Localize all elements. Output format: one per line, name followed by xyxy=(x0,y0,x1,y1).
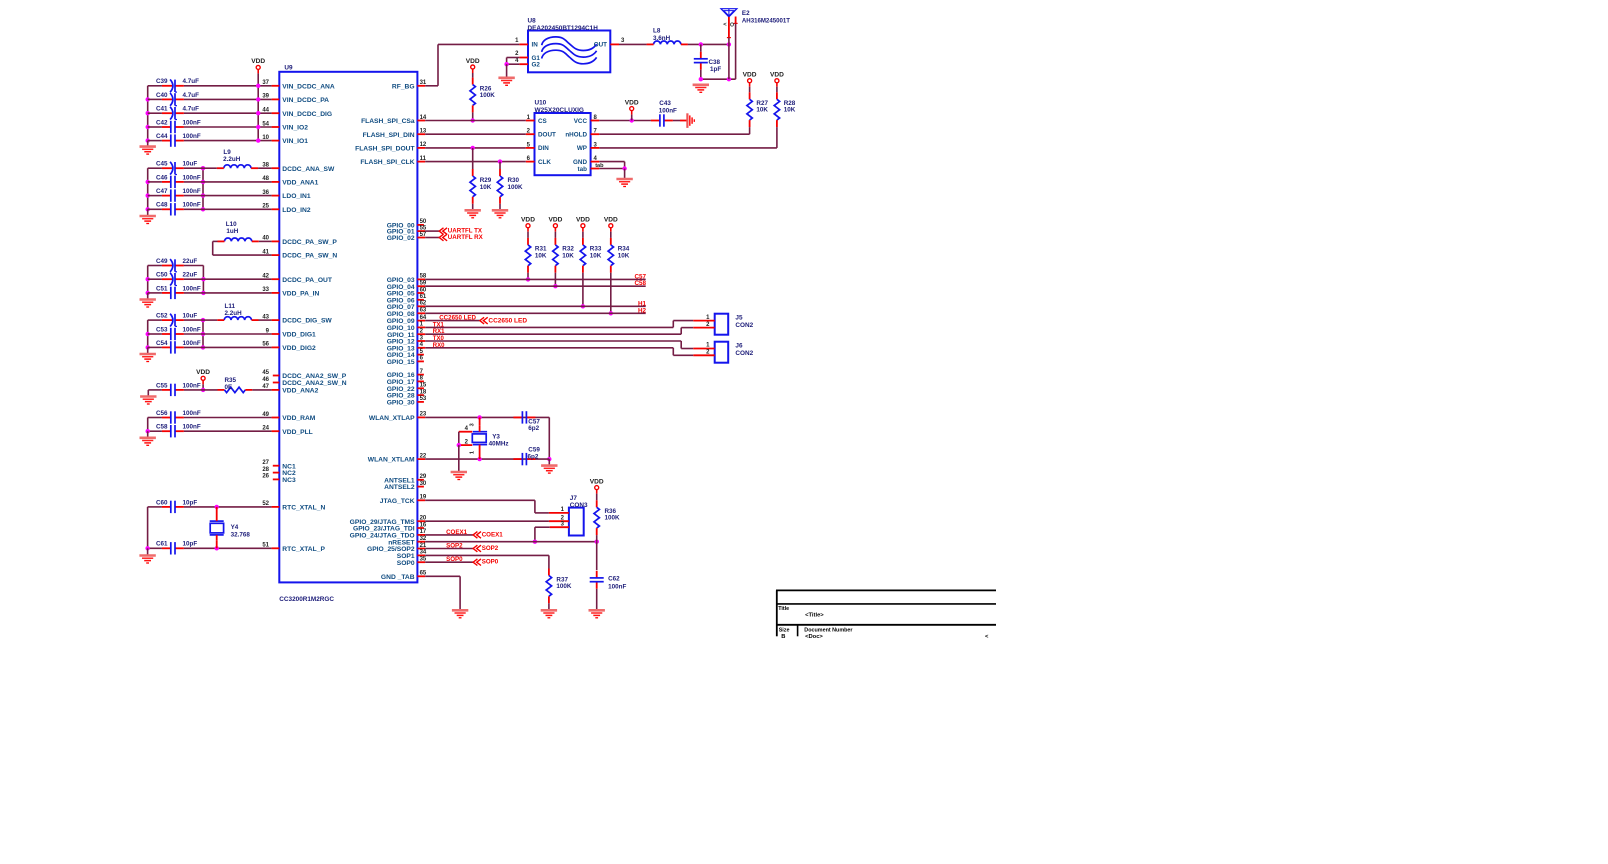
IC U9 CC3200R1M2RGC body xyxy=(279,72,417,583)
svg-text:100nF: 100nF xyxy=(183,174,201,181)
svg-text:CLK: CLK xyxy=(538,159,551,166)
VDD above R31 xyxy=(526,224,530,228)
svg-text:C55: C55 xyxy=(156,382,168,389)
wire RF_BG to U8 IN xyxy=(425,85,438,87)
U10 pin 8 VCC xyxy=(591,120,600,122)
svg-text:4.7uF: 4.7uF xyxy=(183,92,200,99)
resistor R27 10K xyxy=(749,87,751,93)
U9 pin 39 VIN_DCDC_PA xyxy=(272,98,280,100)
svg-text:VIN_DCDC_PA: VIN_DCDC_PA xyxy=(282,97,329,104)
wire L10 left to pin 41 xyxy=(213,240,218,242)
J5 pin 2 xyxy=(693,327,714,329)
U9 pin 17 GPIO_24/JTAG_TDO xyxy=(417,534,425,536)
U9 pin 10 VIN_IO1 xyxy=(272,140,280,142)
svg-text:WP: WP xyxy=(577,145,587,152)
wire nRESET node to C62 xyxy=(596,542,598,570)
wire C56/C58 ground bus xyxy=(147,418,149,432)
svg-text:C56: C56 xyxy=(156,410,168,417)
svg-text:VDD: VDD xyxy=(625,99,639,106)
capacitor C45 10uF xyxy=(175,167,184,169)
wire GPIO_07 net H1 xyxy=(425,305,646,307)
svg-text:10K: 10K xyxy=(618,252,630,259)
capacitor C40 4.7uF xyxy=(175,98,184,100)
filter U8 DEA202450BT1294C1H xyxy=(528,31,610,73)
wire right bus C45-C48 xyxy=(202,168,204,209)
wire C42 left lead xyxy=(148,126,162,128)
svg-text:CC2650 LED: CC2650 LED xyxy=(439,315,476,322)
svg-text:J6: J6 xyxy=(735,343,743,350)
svg-text:VDD: VDD xyxy=(590,478,604,485)
svg-text:SOP2: SOP2 xyxy=(446,543,463,550)
svg-text:30: 30 xyxy=(420,481,427,487)
resistor R32 10K xyxy=(554,232,556,238)
wire FLASH_SPI_DOUT xyxy=(425,147,526,149)
capacitor C58 100nF xyxy=(175,430,184,432)
U9 pin 1 GPIO_10 xyxy=(417,326,425,328)
wire R27 to nHOLD xyxy=(749,127,751,134)
U9 pin 57 GPIO_02 xyxy=(417,237,425,239)
svg-text:L9: L9 xyxy=(223,149,231,156)
wire WLAN_XTLAM xyxy=(425,458,549,460)
ground below XTLAM corner xyxy=(548,459,550,465)
U8 pin 1 xyxy=(519,43,528,45)
svg-text:DCDC_PA_SW_P: DCDC_PA_SW_P xyxy=(282,239,337,246)
svg-text:100nF: 100nF xyxy=(659,107,677,114)
capacitor C61 10pF xyxy=(175,547,184,549)
U9 pin 34 SOP1 xyxy=(417,554,425,556)
U9 pin 40 DCDC_PA_SW_P xyxy=(272,240,280,242)
svg-text:VDD: VDD xyxy=(548,217,562,224)
svg-text:VDD: VDD xyxy=(196,369,210,376)
wire right bus C52-C54 xyxy=(202,320,204,347)
wire C58 to pin 24 xyxy=(184,430,272,432)
wire C44 left lead xyxy=(148,140,162,142)
U9 pin 19 JTAG_TCK xyxy=(417,499,425,501)
capacitor C44 100nF xyxy=(175,140,184,142)
svg-text:60: 60 xyxy=(420,287,427,293)
wire FLASH_SPI_CSa xyxy=(425,120,526,122)
svg-text:U8: U8 xyxy=(528,18,537,25)
svg-text:SOP0: SOP0 xyxy=(482,559,499,566)
capacitor C52 10uF xyxy=(175,319,184,321)
svg-text:100nF: 100nF xyxy=(183,410,201,417)
U9 pin 49 VDD_RAM xyxy=(272,417,280,419)
resistor R33 10K xyxy=(582,232,584,238)
wire antenna ground rail xyxy=(701,78,736,80)
svg-text:10uF: 10uF xyxy=(183,161,198,168)
U9 pin 6 GPIO_15 xyxy=(417,360,424,362)
ground below C51 bus xyxy=(147,293,149,299)
svg-text:61: 61 xyxy=(420,294,427,300)
svg-text:Y4: Y4 xyxy=(231,524,239,531)
U9 pin 35 SOP0 xyxy=(417,561,425,563)
svg-text:W25X20CLUXIG: W25X20CLUXIG xyxy=(535,107,585,114)
svg-text:22uF: 22uF xyxy=(183,272,198,279)
svg-text:C48: C48 xyxy=(156,202,168,209)
svg-text:100nF: 100nF xyxy=(183,285,201,292)
U9 pin 38 DCDC_ANA_SW xyxy=(272,167,280,169)
svg-text:tab: tab xyxy=(578,166,588,173)
svg-text:4.7uF: 4.7uF xyxy=(183,78,200,85)
svg-text:100nF: 100nF xyxy=(183,119,201,126)
svg-text:C53: C53 xyxy=(156,326,168,333)
svg-text:1uH: 1uH xyxy=(226,228,238,235)
wire R28 to WP xyxy=(776,127,778,148)
VDD above U10 VCC xyxy=(630,107,634,111)
Y3 pin 4 wire xyxy=(459,431,473,433)
svg-text:IN: IN xyxy=(532,42,539,49)
wire U10 VCC to VDD and C43 xyxy=(599,120,651,122)
svg-text:L8: L8 xyxy=(653,28,661,35)
svg-text:VDD_DIG2: VDD_DIG2 xyxy=(282,345,316,352)
svg-text:C52: C52 xyxy=(156,313,168,320)
crystal Y3 40MHz xyxy=(479,417,481,425)
wire to pin xyxy=(203,181,272,183)
svg-text:U10: U10 xyxy=(535,100,547,107)
VDD symbol top-left xyxy=(256,65,260,69)
svg-text:16: 16 xyxy=(420,522,427,528)
svg-text:COEX1: COEX1 xyxy=(482,531,504,538)
svg-text:RTC_XTAL_P: RTC_XTAL_P xyxy=(282,546,325,553)
U9 pin 54 VIN_IO2 xyxy=(272,126,280,128)
svg-text:40MHz: 40MHz xyxy=(489,440,509,447)
svg-text:VDD: VDD xyxy=(604,217,618,224)
antenna E2 AH316M245001T xyxy=(721,9,737,17)
svg-text:10K: 10K xyxy=(480,184,492,191)
svg-text:GPIO_02: GPIO_02 xyxy=(387,235,415,242)
svg-text:LDO_IN2: LDO_IN2 xyxy=(282,207,311,214)
svg-text:26: 26 xyxy=(262,474,269,480)
svg-text:C58: C58 xyxy=(156,424,168,431)
svg-text:DCDC_ANA2_SW_P: DCDC_ANA2_SW_P xyxy=(282,373,346,380)
capacitor C55 100nF xyxy=(175,389,184,391)
U9 pin 16 GPIO_23/JTAG_TDI xyxy=(417,527,424,529)
flash U10 W25X20CLUXIG xyxy=(535,113,591,175)
U9 pin 55 GPIO_01 xyxy=(417,230,425,232)
svg-text:53: 53 xyxy=(420,396,427,402)
resistor R30 100K xyxy=(499,162,501,169)
svg-text:WLAN_XTLAP: WLAN_XTLAP xyxy=(369,415,415,422)
ground below R29 xyxy=(465,209,481,212)
svg-text:FLASH_SPI_CSa: FLASH_SPI_CSa xyxy=(361,118,415,125)
svg-text:RF_BG: RF_BG xyxy=(392,83,415,90)
resistor R31 10K xyxy=(527,232,529,238)
svg-text:GPIO_08: GPIO_08 xyxy=(387,311,415,318)
wire C39 left lead xyxy=(148,85,162,87)
U10 pin 4 GND xyxy=(591,161,600,163)
wire R35 to pin 47 xyxy=(252,389,271,391)
svg-text:C46: C46 xyxy=(156,174,168,181)
svg-text:18: 18 xyxy=(420,389,427,395)
wire GPIO_08 net H2 xyxy=(425,312,646,314)
svg-text:VDD_DIG1: VDD_DIG1 xyxy=(282,332,316,339)
ground below U10 xyxy=(616,178,632,181)
VDD above R27 xyxy=(748,79,752,83)
svg-text:22uF: 22uF xyxy=(183,258,198,265)
U9 pin 48 VDD_ANA1 xyxy=(272,181,280,183)
U9 pin 58 GPIO_03 xyxy=(417,278,425,280)
wire R32 to GPIO row xyxy=(554,273,556,287)
svg-text:RX0: RX0 xyxy=(433,343,445,349)
svg-text:GND: GND xyxy=(573,159,587,166)
wire C61 to pin 51 xyxy=(184,547,272,549)
svg-text:100nF: 100nF xyxy=(183,202,201,209)
U10 pin tab xyxy=(591,168,600,170)
wire GPIO_02 UARTFL RX xyxy=(425,237,439,239)
svg-text:CS: CS xyxy=(538,118,547,125)
svg-text:J7: J7 xyxy=(570,495,578,502)
U9 pin 22 WLAN_XTLAM xyxy=(417,458,425,460)
capacitor C59 6p2 xyxy=(526,458,535,460)
ground below C62 xyxy=(589,609,605,612)
U9 pin 56 VDD_DIG2 xyxy=(272,346,280,348)
wire JTAG_TCK to J7 pin 1 xyxy=(425,499,535,501)
U9 pin 43 DCDC_DIG_SW xyxy=(272,319,280,321)
U9 pin 9 VDD_DIG1 xyxy=(272,333,280,335)
U9 pin 21 GPIO_25/SOP2 xyxy=(417,548,425,550)
wire C41 left lead xyxy=(148,112,162,114)
wire R30 to ground xyxy=(499,204,501,210)
wire GPIO_04 net C58 xyxy=(425,285,646,287)
svg-text:VDD: VDD xyxy=(521,217,535,224)
svg-text:GND _TAB: GND _TAB xyxy=(381,574,415,581)
capacitor C38 1pF xyxy=(700,52,702,59)
U10 pin 6 CLK xyxy=(526,161,535,163)
wire WLAN_XTLAP xyxy=(425,416,549,418)
U9 pin 8 GPIO_17 xyxy=(417,380,424,382)
svg-text:10K: 10K xyxy=(562,252,574,259)
svg-text:DIN: DIN xyxy=(538,145,549,152)
wire to pin xyxy=(203,208,272,210)
svg-text:L10: L10 xyxy=(226,221,237,228)
wire C38 bottom to ground rail xyxy=(700,70,702,80)
VDD above R32 xyxy=(553,224,557,228)
svg-text:10pF: 10pF xyxy=(183,541,198,548)
inductor L10 1uH xyxy=(225,238,252,241)
svg-text:VDD: VDD xyxy=(251,58,265,65)
VDD symbol above R35 xyxy=(201,376,205,380)
U9 pin 41 DCDC_PA_SW_N xyxy=(272,254,280,256)
U9 pin 46 DCDC_ANA2_SW_N xyxy=(273,382,280,384)
wire GPIO_11 RX1 to J5 pin 2 xyxy=(425,333,681,335)
resistor R29 10K xyxy=(472,148,474,169)
J6 pin 1 xyxy=(693,348,714,350)
wire R31 to GPIO row xyxy=(527,273,529,280)
wire C53 left lead xyxy=(148,333,162,335)
resistor R26 100K xyxy=(472,78,474,85)
svg-text:AH316M245001T: AH316M245001T xyxy=(742,18,790,25)
svg-text:nHOLD: nHOLD xyxy=(565,132,587,139)
U9 pin 53 GPIO_30 xyxy=(417,401,424,403)
capacitor C39 4.7uF xyxy=(175,85,184,87)
ground below R30 xyxy=(492,209,508,212)
capacitor C62 100nF xyxy=(596,571,598,578)
svg-text:UARTFL RX: UARTFL RX xyxy=(448,234,484,241)
svg-text:VDD_ANA1: VDD_ANA1 xyxy=(282,180,318,187)
U9 pin 33 VDD_PA_IN xyxy=(272,292,280,294)
U9 pin 65 GND _TAB xyxy=(417,575,425,577)
U9 pin 42 DCDC_PA_OUT xyxy=(272,278,280,280)
U9 pin 24 VDD_PLL xyxy=(272,430,280,432)
svg-text:100K: 100K xyxy=(480,92,496,99)
wire C46 left lead xyxy=(148,181,162,183)
svg-text:SOP0: SOP0 xyxy=(446,556,463,563)
svg-text:10K: 10K xyxy=(756,107,768,114)
wire to pin 56 xyxy=(203,346,272,348)
resistor R34 10K xyxy=(610,232,612,238)
wire R37 to ground xyxy=(548,603,550,609)
svg-text:TX0: TX0 xyxy=(433,336,445,342)
wire VDD bus to VIN pins xyxy=(257,73,259,140)
title block frame xyxy=(776,589,996,591)
svg-text:C43: C43 xyxy=(659,100,671,107)
VDD above R33 xyxy=(581,224,585,228)
svg-text:Size: Size xyxy=(779,627,790,633)
wire GPIO_12 TX0 to J6 pin 1 xyxy=(425,340,681,342)
U9 pin 44 VIN_DCDC_DIG xyxy=(272,112,280,114)
svg-text:32.768: 32.768 xyxy=(231,532,251,539)
svg-text:100nF: 100nF xyxy=(183,326,201,333)
svg-text:LDO_IN1: LDO_IN1 xyxy=(282,193,311,200)
svg-text:J5: J5 xyxy=(735,315,743,322)
U9 pin 14 FLASH_SPI_CSa xyxy=(417,120,425,122)
wire C51 left lead xyxy=(148,292,162,294)
capacitor C49 22uF xyxy=(175,265,184,267)
wire to pin 9 xyxy=(203,333,272,335)
wire left ground bus xyxy=(147,86,149,142)
svg-text:C58: C58 xyxy=(634,280,646,287)
svg-text:VDD: VDD xyxy=(466,58,480,65)
svg-text:VIN_DCDC_DIG: VIN_DCDC_DIG xyxy=(282,111,332,118)
U9 pin 64 GPIO_09 xyxy=(417,320,425,322)
ground below C44 bus xyxy=(147,141,149,146)
capacitor C56 100nF xyxy=(175,417,184,419)
wire C54 left lead xyxy=(148,346,162,348)
U8 pin 3 xyxy=(610,43,619,45)
svg-text:6p2: 6p2 xyxy=(528,454,539,461)
svg-text:100nF: 100nF xyxy=(183,133,201,140)
wire GPIO_24/JTAG_TDO COEX1 xyxy=(425,534,473,536)
U9 pin 20 GPIO_29/JTAG_TMS xyxy=(417,520,425,522)
U9 pin 28 NC2 xyxy=(273,472,280,474)
wire C38 top xyxy=(700,44,702,51)
svg-text:G2: G2 xyxy=(532,62,541,69)
wire left ground bus xyxy=(147,320,149,348)
capacitor C43 100nF xyxy=(664,120,673,122)
svg-text:100nF: 100nF xyxy=(183,424,201,431)
U10 pin 1 CS xyxy=(526,120,535,122)
connector J5 CON2 xyxy=(715,314,729,335)
svg-text:ANTSEL2: ANTSEL2 xyxy=(384,484,415,491)
wire Y3 case to ground xyxy=(458,432,460,445)
wire nRESET to R36 xyxy=(425,541,597,543)
svg-text:100K: 100K xyxy=(508,184,524,191)
svg-text:<Title>: <Title> xyxy=(805,613,824,619)
wire R34 to GPIO row xyxy=(610,273,612,314)
inductor L8 3.6nH xyxy=(654,41,681,44)
ground below GND_TAB xyxy=(452,609,468,612)
wire C56 to pin 49 xyxy=(184,417,272,419)
capacitor C60 10pF xyxy=(175,506,184,508)
svg-text:DCDC_ANA2_SW_N: DCDC_ANA2_SW_N xyxy=(282,380,346,387)
svg-text:10K: 10K xyxy=(784,107,796,114)
U9 pin 32 nRESET xyxy=(417,541,425,543)
svg-text:100nF: 100nF xyxy=(183,188,201,195)
svg-text:10K: 10K xyxy=(535,252,547,259)
svg-text:45: 45 xyxy=(262,370,269,376)
svg-text:29: 29 xyxy=(420,474,427,480)
svg-text:FLASH_SPI_DOUT: FLASH_SPI_DOUT xyxy=(355,146,415,153)
svg-text:VDD_RAM: VDD_RAM xyxy=(282,415,315,422)
svg-text:SOP0: SOP0 xyxy=(397,560,415,567)
svg-text:C47: C47 xyxy=(156,188,168,195)
wire to pin 33 xyxy=(203,292,271,294)
svg-text:L11: L11 xyxy=(225,303,236,310)
svg-text:DOUT: DOUT xyxy=(538,132,556,139)
wire C48 left lead xyxy=(148,208,162,210)
svg-text:VIN_DCDC_ANA: VIN_DCDC_ANA xyxy=(282,83,335,90)
ground below R37 xyxy=(541,609,557,612)
resistor R36 100K xyxy=(596,494,598,501)
wire RTC ground bus xyxy=(147,507,149,548)
ground below C61 xyxy=(139,554,155,557)
svg-text:GPIO_15: GPIO_15 xyxy=(387,359,415,366)
U9 pin 23 WLAN_XTLAP xyxy=(417,416,425,418)
wire C43 to ground symbol xyxy=(673,120,680,122)
wire VDD to node xyxy=(202,384,204,390)
antenna pin 2 xyxy=(735,17,737,24)
svg-text:DEA202450BT1294C1H: DEA202450BT1294C1H xyxy=(528,25,599,32)
svg-text:C49: C49 xyxy=(156,258,168,265)
U9 pin 27 NC1 xyxy=(273,465,280,467)
svg-text:CON3: CON3 xyxy=(570,502,588,509)
svg-text:OUT: OUT xyxy=(594,42,607,49)
svg-text:SOP2: SOP2 xyxy=(482,545,499,552)
svg-text:3: 3 xyxy=(470,423,476,426)
U9 pin 5 GPIO_14 xyxy=(417,354,424,356)
svg-text:FLASH_SPI_CLK: FLASH_SPI_CLK xyxy=(360,159,414,166)
wire C60 to pin 52 xyxy=(184,506,272,508)
svg-text:VDD_PA_IN: VDD_PA_IN xyxy=(282,291,319,298)
U9 pin 12 FLASH_SPI_DOUT xyxy=(417,147,425,149)
U9 pin 15 GPIO_22 xyxy=(417,387,424,389)
capacitor C51 100nF xyxy=(175,292,184,294)
wire U8 OUT to L8 xyxy=(619,43,647,45)
wire FLASH_SPI_DIN xyxy=(425,133,526,135)
U9 pin 18 GPIO_28 xyxy=(417,394,424,396)
wire C52 left lead xyxy=(148,319,162,321)
wire JTAG_TMS to J7 pin 2 xyxy=(425,520,549,522)
wire C55 to R35 xyxy=(184,389,218,391)
svg-text:C59: C59 xyxy=(528,447,540,454)
svg-text:VIN_IO2: VIN_IO2 xyxy=(282,125,308,132)
wire GPIO_10 TX1 to J5 pin 1 xyxy=(425,326,673,328)
J7 pin 3 xyxy=(550,526,569,528)
resistor R37 100K xyxy=(548,569,550,576)
wire J7 pin 3 to nRESET xyxy=(535,526,550,528)
svg-text:H2: H2 xyxy=(638,307,647,314)
svg-text:JTAG_TCK: JTAG_TCK xyxy=(380,498,415,505)
U9 pin 30 ANTSEL2 xyxy=(417,486,424,488)
svg-text:6p2: 6p2 xyxy=(528,425,539,432)
U9 pin 52 RTC_XTAL_N xyxy=(272,506,280,508)
J6 pin 2 xyxy=(693,354,714,356)
wire L11 to bus and pin 43 xyxy=(203,319,217,321)
VDD above R28 xyxy=(775,79,779,83)
svg-text:VDD: VDD xyxy=(770,72,784,79)
svg-text:H1: H1 xyxy=(638,300,647,307)
svg-text:VCC: VCC xyxy=(574,118,588,125)
